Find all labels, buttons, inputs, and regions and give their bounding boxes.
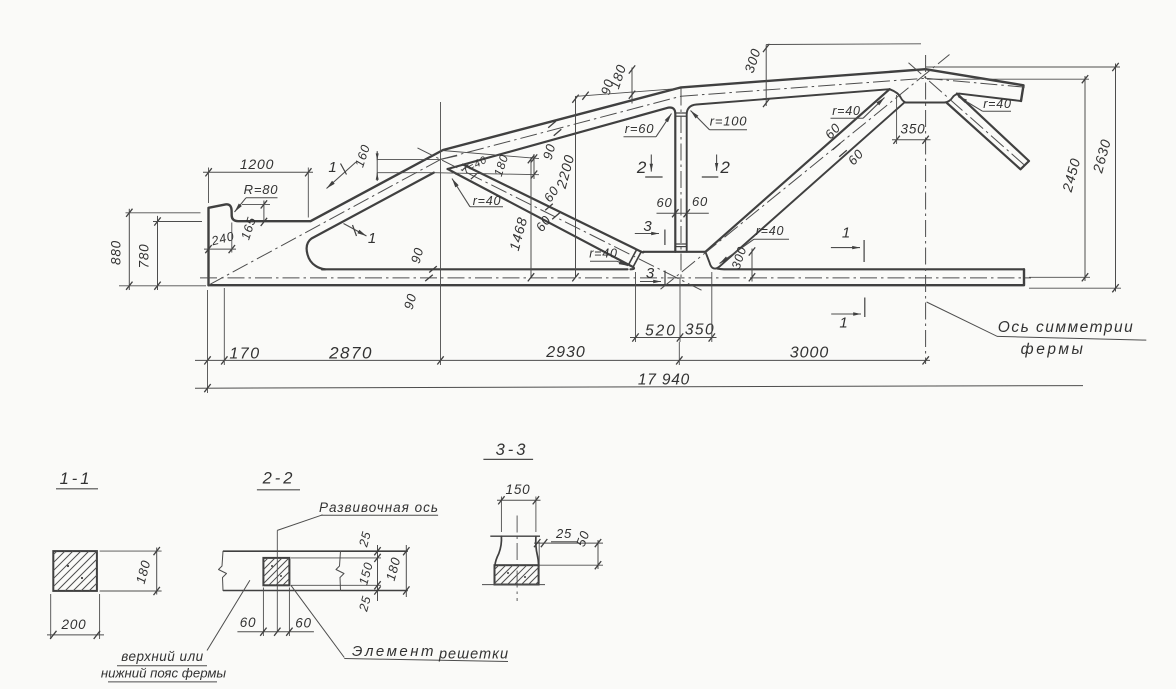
label r=60 bbox=[624, 114, 672, 137]
svg-text:3: 3 bbox=[646, 265, 655, 282]
top chord centreline bbox=[209, 78, 1027, 285]
dimension 520 and 350 bbox=[630, 272, 717, 342]
label R=80 top bbox=[235, 182, 279, 212]
dimension 17 940 bbox=[195, 372, 1083, 393]
svg-text:300: 300 bbox=[742, 46, 764, 74]
svg-text:1468: 1468 bbox=[506, 215, 530, 252]
web member 1 (diagonal node1-bottom node) bbox=[448, 165, 644, 270]
svg-text:180: 180 bbox=[607, 62, 629, 90]
svg-text:50: 50 bbox=[573, 528, 593, 548]
dimension 880 bbox=[109, 209, 133, 290]
web member 3 (right of apex, cut off) bbox=[946, 94, 1029, 170]
svg-text:350: 350 bbox=[685, 322, 715, 339]
section 3-3 dim 50 bbox=[539, 528, 603, 569]
svg-text:780: 780 bbox=[137, 244, 152, 269]
dimension 180 (top, before post) bbox=[607, 62, 635, 103]
web member 2 (diagonal to apex) bbox=[705, 89, 904, 268]
section 2-2 dim 60 60 bbox=[237, 588, 314, 637]
svg-text:r=40: r=40 bbox=[473, 194, 502, 208]
extension lines left bbox=[119, 213, 206, 286]
svg-text:200: 200 bbox=[61, 617, 87, 632]
section mark 1 (mid span lower) bbox=[831, 298, 865, 332]
labels 60 60 on web 1 bbox=[533, 183, 563, 234]
svg-text:25: 25 bbox=[555, 526, 572, 541]
svg-text:1200: 1200 bbox=[240, 156, 274, 172]
dimension 160 bbox=[352, 143, 440, 181]
svg-text:180: 180 bbox=[383, 555, 404, 582]
dimension 2630 bbox=[1089, 63, 1118, 292]
svg-text:150: 150 bbox=[356, 560, 376, 586]
svg-text:90: 90 bbox=[408, 246, 427, 265]
dimension 165 bbox=[238, 200, 270, 241]
svg-text:90: 90 bbox=[540, 142, 559, 161]
dimension 240 bbox=[204, 223, 236, 254]
svg-text:2630: 2630 bbox=[1089, 137, 1114, 175]
dimension 2450 bbox=[1059, 75, 1088, 281]
section 3-3 shape bbox=[490, 536, 540, 565]
svg-text:17 940: 17 940 bbox=[638, 372, 690, 389]
section 2-2 title bbox=[257, 470, 300, 490]
svg-text:r=40: r=40 bbox=[832, 104, 861, 118]
section mark 3 (upper) bbox=[635, 218, 665, 245]
section 3-3 hatched base bbox=[482, 565, 545, 584]
section mark 1 (lower) bbox=[344, 224, 378, 248]
extension lines for bottom rows bbox=[208, 102, 680, 393]
axis of symmetry centreline bbox=[925, 55, 927, 364]
dimension 180 (chord width at node1) bbox=[434, 151, 539, 180]
dimension 60 60 at post bbox=[656, 194, 708, 217]
vertical post right edge, fillet r=100 bbox=[687, 89, 1021, 252]
section 1-1 dimension 180 bbox=[100, 547, 162, 595]
svg-text:170: 170 bbox=[229, 346, 260, 363]
svg-text:r=40: r=40 bbox=[462, 154, 489, 176]
svg-text:25: 25 bbox=[356, 594, 374, 614]
section 1-1 square (chord cross-section) bbox=[53, 551, 97, 591]
svg-text:3000: 3000 bbox=[790, 345, 830, 362]
svg-text:180: 180 bbox=[133, 558, 154, 585]
dimension 350 (apex) bbox=[892, 95, 931, 144]
svg-text:3-3: 3-3 bbox=[496, 441, 529, 459]
label r=40 (bottom node left) bbox=[589, 247, 628, 266]
section 2-2 dims 25 150 25 bbox=[291, 530, 381, 614]
label verkhnij ili nizhnij poyas fermy bbox=[101, 580, 250, 682]
svg-text:1-1: 1-1 bbox=[60, 470, 93, 488]
section 2-2 centreline (layout axis) bbox=[276, 530, 278, 631]
web 1 end cut marks bbox=[629, 250, 641, 267]
svg-text:r=100: r=100 bbox=[710, 114, 748, 129]
dimension 1200 bbox=[203, 156, 313, 218]
svg-text:r=40: r=40 bbox=[983, 97, 1012, 111]
section 1-1 title bbox=[56, 470, 98, 489]
section 3-3 centreline bbox=[516, 516, 518, 602]
label r=40 (apex right) bbox=[958, 97, 1012, 112]
dimension row 170 2870 2930 3000 bbox=[195, 344, 930, 365]
svg-text:r=60: r=60 bbox=[625, 121, 655, 136]
dimension 780 bbox=[137, 216, 161, 290]
svg-text:2-2: 2-2 bbox=[262, 470, 296, 488]
svg-text:1: 1 bbox=[842, 225, 851, 242]
label r=40 (web2 bottom) bbox=[720, 224, 790, 264]
label r=40 (web1 top) bbox=[452, 179, 503, 209]
web 2 centreline bbox=[661, 55, 950, 290]
svg-text:Ось симметрии: Ось симметрии bbox=[998, 319, 1134, 336]
svg-text:60: 60 bbox=[656, 195, 672, 210]
web 3 centreline bbox=[909, 63, 1027, 167]
svg-text:нижний пояс фермы: нижний пояс фермы bbox=[101, 666, 227, 681]
label r=40 (apex left) bbox=[831, 98, 885, 119]
svg-text:160: 160 bbox=[352, 143, 373, 169]
dimension 2200 bbox=[553, 95, 579, 282]
svg-text:60: 60 bbox=[822, 120, 844, 142]
svg-text:60: 60 bbox=[240, 615, 257, 630]
svg-text:1: 1 bbox=[839, 315, 848, 332]
svg-text:r=40: r=40 bbox=[756, 224, 785, 238]
axis of symmetry leader and label bbox=[927, 302, 1147, 358]
bottom chord centreline bbox=[200, 277, 1031, 279]
svg-text:фермы: фермы bbox=[1021, 341, 1086, 358]
section mark 1 (mid span upper) bbox=[831, 225, 864, 263]
extension lines right bbox=[926, 67, 1121, 288]
svg-text:2200: 2200 bbox=[553, 153, 578, 191]
dimension 1468 bbox=[506, 155, 534, 281]
labels 60 60 on web 2 bbox=[822, 120, 867, 168]
section mark 2 (right) bbox=[702, 155, 731, 178]
section mark 3 (lower) bbox=[640, 265, 665, 285]
svg-text:880: 880 bbox=[109, 240, 124, 265]
labels 90 90 at bottom chord bbox=[401, 246, 437, 311]
fillet R=80 at left end / top chord lower edge (steep segment) bbox=[307, 173, 434, 270]
label r=40 at node1 fillet bbox=[462, 154, 489, 176]
svg-text:165: 165 bbox=[238, 215, 259, 241]
bottom node plateau bbox=[644, 251, 706, 253]
web 1 fillet r=40 detail marks near node 1 bbox=[463, 165, 477, 180]
svg-text:300: 300 bbox=[729, 245, 750, 271]
svg-text:60: 60 bbox=[845, 146, 867, 168]
bottom chord top inner edge bbox=[322, 268, 1024, 271]
section 1-1 dimension 200 bbox=[47, 594, 104, 639]
section 2-2 chord band bbox=[219, 551, 408, 590]
section 2-2 dim 180 bbox=[383, 545, 410, 597]
svg-text:решетки: решетки bbox=[438, 647, 509, 663]
svg-text:2870: 2870 bbox=[328, 344, 373, 363]
svg-text:60: 60 bbox=[295, 616, 312, 631]
section mark 2 (left) bbox=[636, 155, 663, 178]
svg-text:2450: 2450 bbox=[1059, 156, 1084, 194]
svg-text:1: 1 bbox=[328, 159, 337, 176]
labels 90 90 on top chord bbox=[540, 77, 617, 161]
label Razvivochnaya os bbox=[277, 500, 439, 530]
section mark 1 (upper) bbox=[327, 159, 357, 189]
svg-text:150: 150 bbox=[506, 482, 531, 497]
svg-text:2930: 2930 bbox=[545, 344, 586, 361]
top edge extension line at post bend bbox=[575, 89, 678, 100]
svg-text:r=40: r=40 bbox=[589, 247, 618, 261]
svg-text:2: 2 bbox=[719, 158, 730, 177]
label r=100 bbox=[691, 111, 748, 130]
dimension 300 (right of bottom node) bbox=[729, 245, 755, 282]
svg-text:90: 90 bbox=[401, 292, 420, 311]
svg-text:1: 1 bbox=[368, 230, 377, 247]
section 3-3 title bbox=[483, 441, 533, 459]
post centreline bbox=[680, 89, 681, 343]
dimension 300 (top) bbox=[742, 44, 921, 107]
section 3-3 dim 25 bbox=[534, 526, 603, 567]
svg-text:верхний или: верхний или bbox=[121, 649, 203, 664]
svg-text:Элемент: Элемент bbox=[352, 643, 436, 660]
web 1 centreline bbox=[418, 148, 702, 290]
svg-text:520: 520 bbox=[645, 323, 677, 340]
truss outer outline (top chord top edge, left end, bottom chord) bbox=[209, 69, 1025, 285]
svg-text:2: 2 bbox=[636, 158, 647, 177]
section 2-2 lattice element square bbox=[263, 558, 289, 585]
post joint tick marks bbox=[675, 113, 686, 247]
section 3-3 dim 150 bbox=[497, 482, 541, 532]
label Element reshetki bbox=[291, 585, 509, 662]
svg-text:350: 350 bbox=[901, 122, 926, 137]
svg-text:Развивочная ось: Развивочная ось bbox=[319, 500, 439, 515]
svg-text:R=80: R=80 bbox=[244, 182, 279, 197]
top chord lower edge (node1 to post), fillet r=60 bbox=[448, 107, 676, 251]
svg-text:60: 60 bbox=[692, 194, 708, 209]
svg-text:25: 25 bbox=[356, 530, 374, 550]
